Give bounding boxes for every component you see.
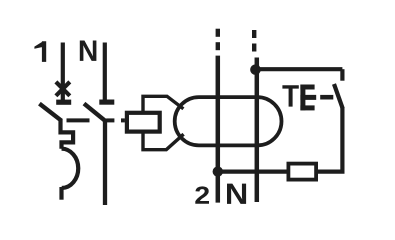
wire pole-1 bottom lead — [59, 187, 63, 200]
node: test tap junction — [250, 64, 261, 75]
toroid core (stadium) — [175, 97, 282, 145]
label T (test) — [282, 85, 298, 106]
wire test switch upper stub — [340, 69, 344, 81]
sensing winding funnel (top) — [143, 96, 183, 111]
push-button actuator symbol — [300, 85, 316, 111]
pole-1 fixed contact bar — [56, 100, 71, 105]
sensing winding funnel (bottom) — [143, 132, 184, 150]
node: junction on conductor 1 — [213, 166, 223, 176]
actuator link dash — [320, 95, 333, 100]
conductor 1 (through toroid) — [216, 56, 221, 203]
conductor 2 dashed top — [252, 30, 256, 52]
label N (top terminal) — [80, 41, 97, 61]
conductor 1 dashed top — [216, 29, 220, 51]
trip relay coil — [127, 113, 160, 132]
label 2 (bottom terminal) — [195, 186, 209, 203]
resistor (test) — [288, 164, 316, 180]
label 1 (terminal) — [34, 41, 46, 62]
wire test branch right — [316, 107, 342, 172]
wire pole-1 terminal lead — [61, 43, 65, 101]
test switch blade — [334, 84, 343, 109]
breaker X at contact tip — [56, 82, 70, 96]
label N (bottom terminal) — [227, 184, 246, 204]
magnetic release arc — [62, 149, 79, 188]
N moving contact blade — [84, 104, 105, 121]
mechanical linkage dashed — [67, 118, 125, 122]
wire N bottom lead — [103, 119, 107, 205]
pole-1 moving contact blade — [39, 104, 61, 121]
wire test branch top — [257, 67, 343, 71]
wire test branch bottom — [218, 170, 289, 174]
wire N terminal lead — [103, 43, 107, 100]
conductor 2 (through toroid) — [255, 58, 260, 203]
thermal release zigzag — [61, 119, 74, 149]
N fixed contact bar — [99, 99, 114, 104]
